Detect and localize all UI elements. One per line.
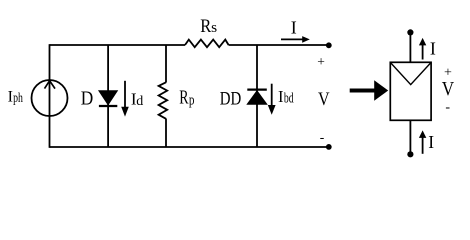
svg-text:DD: DD — [220, 90, 242, 110]
svg-text:+: + — [317, 54, 325, 69]
PV top current arrow I — [419, 38, 426, 60]
wire left vertical — [49, 44, 51, 148]
svg-text:R: R — [200, 16, 211, 37]
svg-text:R: R — [179, 87, 188, 108]
svg-text:-: - — [320, 129, 325, 144]
wire top right segment — [229, 44, 329, 46]
label Iph — [8, 89, 23, 107]
PV bottom lead wire — [409, 120, 411, 152]
label Ibd — [278, 87, 294, 107]
wire diode D branch — [107, 45, 109, 147]
wire bottom — [50, 146, 329, 148]
svg-text:V: V — [318, 90, 330, 110]
svg-text:p: p — [189, 93, 195, 109]
svg-text:I: I — [278, 87, 284, 106]
output current arrow I — [281, 36, 310, 43]
wire Rp branch bottom — [165, 119, 167, 147]
label Rs — [200, 16, 217, 37]
PV top lead wire — [409, 35, 411, 63]
node terminal minus dot — [326, 144, 332, 150]
diode D triangle — [99, 91, 117, 105]
wire diode DD branch — [256, 45, 258, 147]
current arrow Id — [121, 81, 129, 117]
wire Rp branch top — [165, 45, 167, 83]
svg-text:ph: ph — [13, 91, 23, 106]
current source U Iph circle — [32, 80, 68, 116]
label Rp — [179, 87, 194, 108]
resistor Rs — [185, 40, 229, 48]
PV cell body — [390, 62, 431, 120]
PV bottom current arrow I — [419, 130, 426, 153]
current arrow Ibd — [268, 84, 276, 115]
PV cell chevron — [391, 63, 431, 85]
resistor Rp — [159, 82, 168, 119]
svg-text:d: d — [136, 94, 143, 109]
wire top left segment — [50, 44, 186, 46]
diode D cathode bar — [99, 105, 117, 107]
diode DD cathode bar — [247, 88, 266, 90]
svg-text:-: - — [445, 100, 450, 115]
svg-text:bd: bd — [284, 91, 294, 107]
big equivalence arrow — [350, 80, 389, 101]
PV top terminal dot — [407, 29, 413, 35]
svg-text:V: V — [442, 79, 454, 100]
PV bottom terminal dot — [407, 151, 413, 157]
svg-text:I: I — [430, 38, 436, 58]
svg-text:D: D — [81, 89, 94, 110]
label Id — [131, 89, 143, 109]
svg-text:I: I — [428, 132, 434, 152]
svg-text:I: I — [291, 18, 297, 38]
diode DD triangle — [247, 91, 266, 104]
current source arrowhead — [45, 81, 56, 89]
svg-text:s: s — [211, 20, 217, 36]
node terminal plus dot — [326, 42, 332, 48]
